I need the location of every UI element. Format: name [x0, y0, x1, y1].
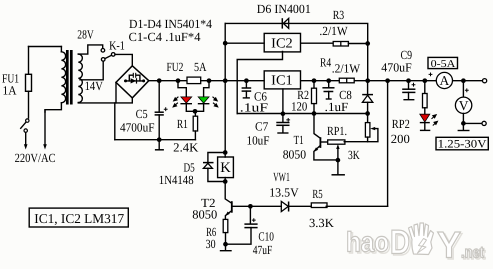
svg-text:47uF: 47uF	[253, 243, 273, 257]
svg-text:1A: 1A	[3, 83, 17, 97]
svg-text:hao: hao	[346, 227, 389, 258]
svg-text:.1uF: .1uF	[240, 100, 268, 114]
svg-text:RP1.: RP1.	[327, 124, 347, 138]
svg-text:T1: T1	[294, 133, 304, 147]
svg-text:14V: 14V	[85, 79, 103, 93]
svg-text:30: 30	[206, 237, 216, 251]
svg-text:.2/1W: .2/1W	[332, 61, 361, 75]
svg-text:IC2: IC2	[271, 36, 293, 51]
svg-text:220V/AC: 220V/AC	[15, 151, 56, 165]
svg-text:D6 IN4001: D6 IN4001	[257, 2, 311, 16]
svg-text:13.5V: 13.5V	[269, 185, 299, 199]
svg-text:10uF: 10uF	[247, 134, 270, 148]
svg-text:120: 120	[291, 99, 307, 113]
svg-text:R5: R5	[312, 187, 322, 201]
svg-text:IC1: IC1	[271, 74, 293, 89]
svg-text:R1: R1	[177, 117, 188, 131]
svg-text:8050: 8050	[192, 208, 217, 222]
svg-text:8050: 8050	[283, 147, 306, 161]
svg-text:D: D	[390, 224, 410, 262]
svg-text:4700uF: 4700uF	[120, 121, 155, 135]
svg-text:RP2: RP2	[392, 117, 410, 131]
svg-text:.1uF: .1uF	[325, 100, 349, 114]
svg-text:.2/1W: .2/1W	[319, 24, 347, 38]
svg-text:C5: C5	[136, 107, 148, 121]
svg-text:5A: 5A	[194, 60, 206, 74]
svg-text:28V: 28V	[77, 28, 94, 42]
svg-text:1.25-30V: 1.25-30V	[438, 139, 488, 151]
svg-text:0-5A: 0-5A	[431, 59, 456, 70]
svg-text:R4: R4	[320, 55, 332, 69]
svg-text:3K: 3K	[348, 148, 360, 162]
svg-text:Y: Y	[437, 225, 461, 266]
svg-text:470uF: 470uF	[381, 60, 411, 74]
svg-text:D1-D4 IN5401*4: D1-D4 IN5401*4	[129, 17, 213, 31]
svg-text:.net: .net	[461, 245, 485, 262]
svg-text:1N4148: 1N4148	[159, 173, 194, 187]
svg-text:200: 200	[391, 132, 410, 146]
svg-text:FU2: FU2	[167, 60, 184, 74]
svg-text:VW1: VW1	[273, 170, 290, 184]
svg-text:C10: C10	[258, 229, 274, 243]
svg-text:R3: R3	[333, 8, 345, 22]
svg-text:V: V	[459, 98, 469, 113]
svg-text:A: A	[440, 73, 450, 88]
svg-text:3.3K: 3.3K	[309, 216, 334, 230]
svg-text:IC1, IC2 LM317: IC1, IC2 LM317	[34, 211, 124, 226]
svg-text:C7: C7	[255, 119, 268, 133]
svg-text:K: K	[220, 160, 231, 176]
svg-text:2.4K: 2.4K	[173, 141, 198, 155]
svg-text:K-1: K-1	[109, 38, 125, 52]
svg-text:C1-C4 .1uF*4: C1-C4 .1uF*4	[129, 30, 202, 44]
